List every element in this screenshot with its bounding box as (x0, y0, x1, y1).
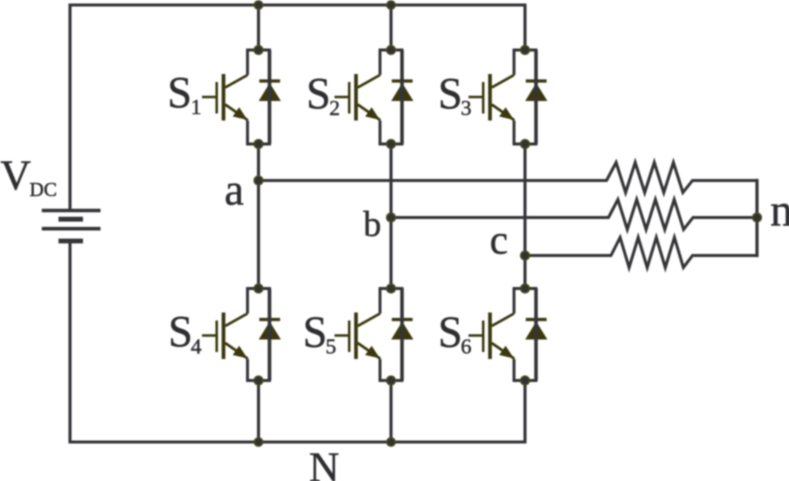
svg-text:5: 5 (326, 335, 337, 359)
wire node b to lower cell (389, 218, 392, 289)
junction bottom rail / leg a (254, 438, 262, 446)
label VDC (0, 153, 57, 201)
wire diode branch of S6 (534, 289, 538, 381)
wire leg b top rail to upper cell (389, 5, 392, 50)
svg-text:S: S (438, 308, 462, 357)
transistor S6 (IGBT) (469, 313, 515, 360)
junction upper cell S3 emitter (521, 140, 530, 149)
wire node a to resistor Ra (259, 179, 608, 182)
svg-text:S: S (303, 308, 327, 357)
transistor S3 (IGBT) (469, 74, 515, 121)
transistor S4 (IGBT) (202, 313, 248, 360)
label S3 (438, 69, 472, 120)
label node N (309, 445, 339, 481)
diode D2 (anti-parallel with S2) (391, 81, 413, 101)
wire node c to lower cell (523, 256, 526, 289)
diode D4 (anti-parallel with S4) (259, 320, 281, 340)
svg-text:V: V (0, 153, 31, 200)
wire node b to resistor Rb (391, 216, 610, 219)
junction lower cell S4 collector (254, 284, 263, 293)
wire diode branch of S3 (534, 50, 538, 144)
junction top rail / leg a (254, 1, 262, 9)
wire right bus joining Ra Rb Rc at node n (755, 179, 758, 257)
label S1 (167, 68, 201, 119)
svg-text:DC: DC (30, 179, 57, 201)
wire diode branch of S4 (268, 289, 272, 381)
node n junction (753, 213, 762, 222)
svg-text:c: c (490, 216, 508, 262)
wire top DC+ rail (69, 3, 527, 6)
wire node c to resistor Rc (525, 254, 612, 257)
node c junction (521, 251, 530, 260)
label node b (363, 204, 381, 244)
transistor S5 (IGBT) (335, 313, 381, 360)
junction upper cell S2 collector (387, 46, 396, 55)
wire bottom N rail (69, 440, 527, 443)
wire resistor Rc to right bus (692, 254, 758, 257)
svg-text:N: N (309, 445, 339, 481)
svg-text:S: S (167, 68, 191, 117)
svg-text:n: n (770, 185, 789, 235)
label node a (224, 166, 244, 215)
wire collector/emitter loop of S4 (246, 289, 271, 381)
junction upper cell S1 collector (254, 46, 263, 55)
resistor Rb (609, 200, 694, 230)
wire collector/emitter loop of S3 (513, 50, 538, 144)
svg-text:S: S (168, 307, 192, 356)
transistor S1 (IGBT) (202, 74, 248, 121)
label node c (490, 216, 508, 262)
junction upper cell S1 emitter (254, 140, 263, 149)
svg-text:4: 4 (191, 335, 202, 359)
svg-text:S: S (438, 69, 462, 118)
wire left leg from top rail to VDC+ (68, 4, 71, 210)
wire leg a top rail to upper cell (257, 5, 260, 50)
diode D5 (anti-parallel with S5) (391, 320, 413, 340)
junction lower cell S4 emitter (254, 376, 263, 385)
wire lower cell to bottom rail (389, 381, 392, 443)
wire diode branch of S5 (400, 289, 404, 381)
wire diode branch of S2 (400, 50, 404, 144)
label S5 (303, 308, 336, 359)
wire collector/emitter loop of S1 (246, 50, 271, 144)
wire node a to lower cell (257, 181, 260, 289)
node b junction (387, 213, 396, 222)
node a junction (254, 176, 263, 185)
resistor Ra (607, 163, 693, 193)
label node n (770, 185, 789, 235)
wire upper cell to node c (523, 144, 526, 256)
wire resistor Rb to node n (692, 216, 757, 219)
wire diode branch of S1 (268, 50, 272, 144)
junction top rail / leg b (387, 1, 395, 9)
resistor Rc (611, 238, 693, 268)
wire lower cell to bottom rail (523, 381, 526, 443)
wire collector/emitter loop of S2 (379, 50, 404, 144)
svg-text:2: 2 (329, 96, 340, 120)
junction lower cell S5 collector (387, 284, 396, 293)
wire left leg from VDC- to bottom rail (68, 241, 71, 444)
junction bottom rail / leg b (387, 438, 395, 446)
junction upper cell S2 emitter (387, 140, 396, 149)
wire upper cell to node b (389, 144, 392, 218)
svg-text:S: S (306, 69, 330, 118)
diode D1 (anti-parallel with S1) (259, 81, 281, 101)
junction lower cell S6 collector (521, 284, 530, 293)
label S2 (306, 69, 340, 120)
junction lower cell S6 emitter (521, 376, 530, 385)
wire collector/emitter loop of S6 (513, 289, 538, 381)
svg-text:1: 1 (191, 95, 202, 119)
diode D3 (anti-parallel with S3) (525, 81, 547, 101)
wire leg c top rail to upper cell (523, 5, 526, 50)
label S4 (168, 307, 202, 359)
label S6 (438, 308, 472, 359)
svg-text:6: 6 (461, 335, 472, 359)
voltage source VDC (battery) (42, 211, 101, 242)
svg-text:a: a (224, 166, 244, 215)
svg-text:b: b (363, 204, 381, 244)
transistor S2 (IGBT) (335, 74, 381, 121)
junction lower cell S5 emitter (387, 376, 396, 385)
wire upper cell to node a (257, 144, 260, 181)
svg-text:3: 3 (461, 96, 472, 120)
wire collector/emitter loop of S5 (379, 289, 404, 381)
junction upper cell S3 collector (521, 46, 530, 55)
diode D6 (anti-parallel with S6) (525, 320, 547, 340)
wire lower cell to bottom rail (257, 381, 260, 443)
wire resistor Ra to right bus (692, 179, 758, 182)
